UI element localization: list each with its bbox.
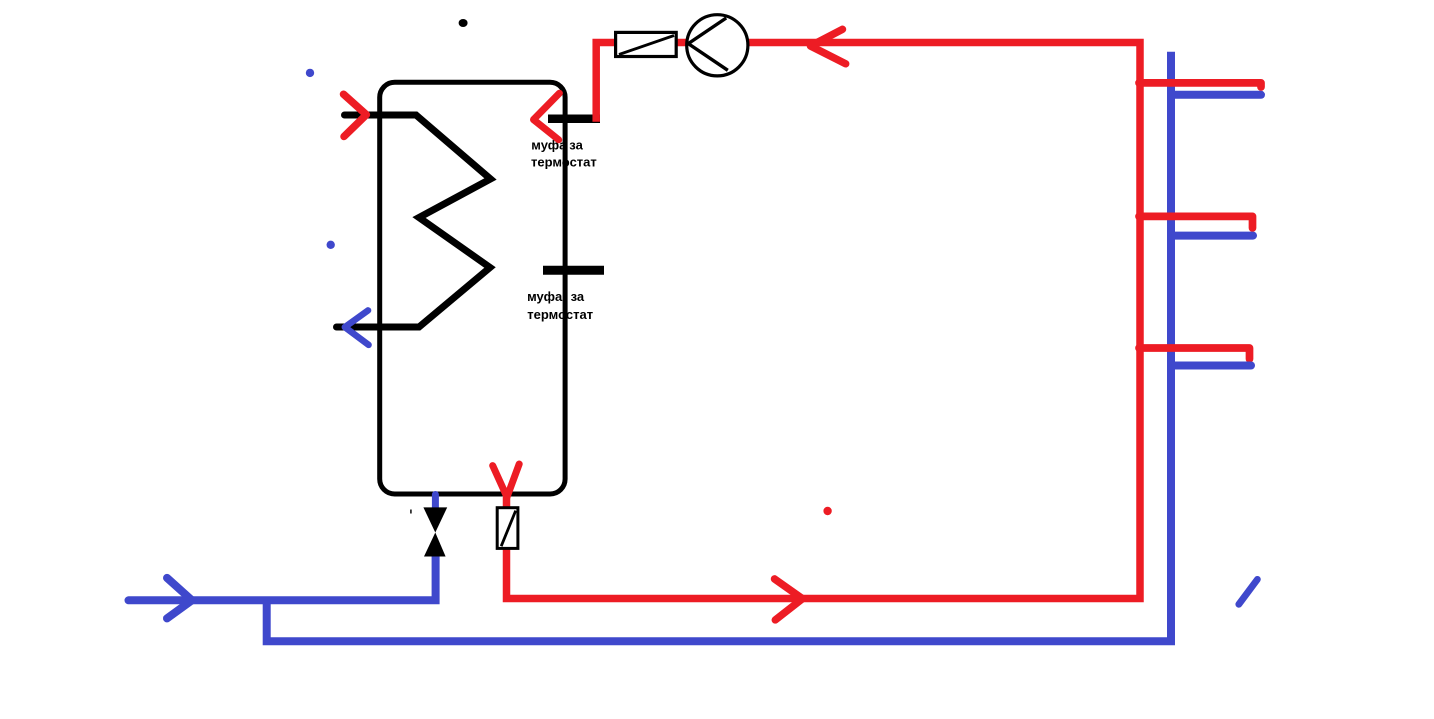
svg-text:термостат: термостат [531, 155, 597, 170]
svg-text:за: за [571, 289, 585, 304]
svg-text:за: за [569, 137, 583, 152]
svg-text:муфа: муфа [527, 289, 563, 304]
svg-text:термостат: термостат [527, 307, 593, 322]
